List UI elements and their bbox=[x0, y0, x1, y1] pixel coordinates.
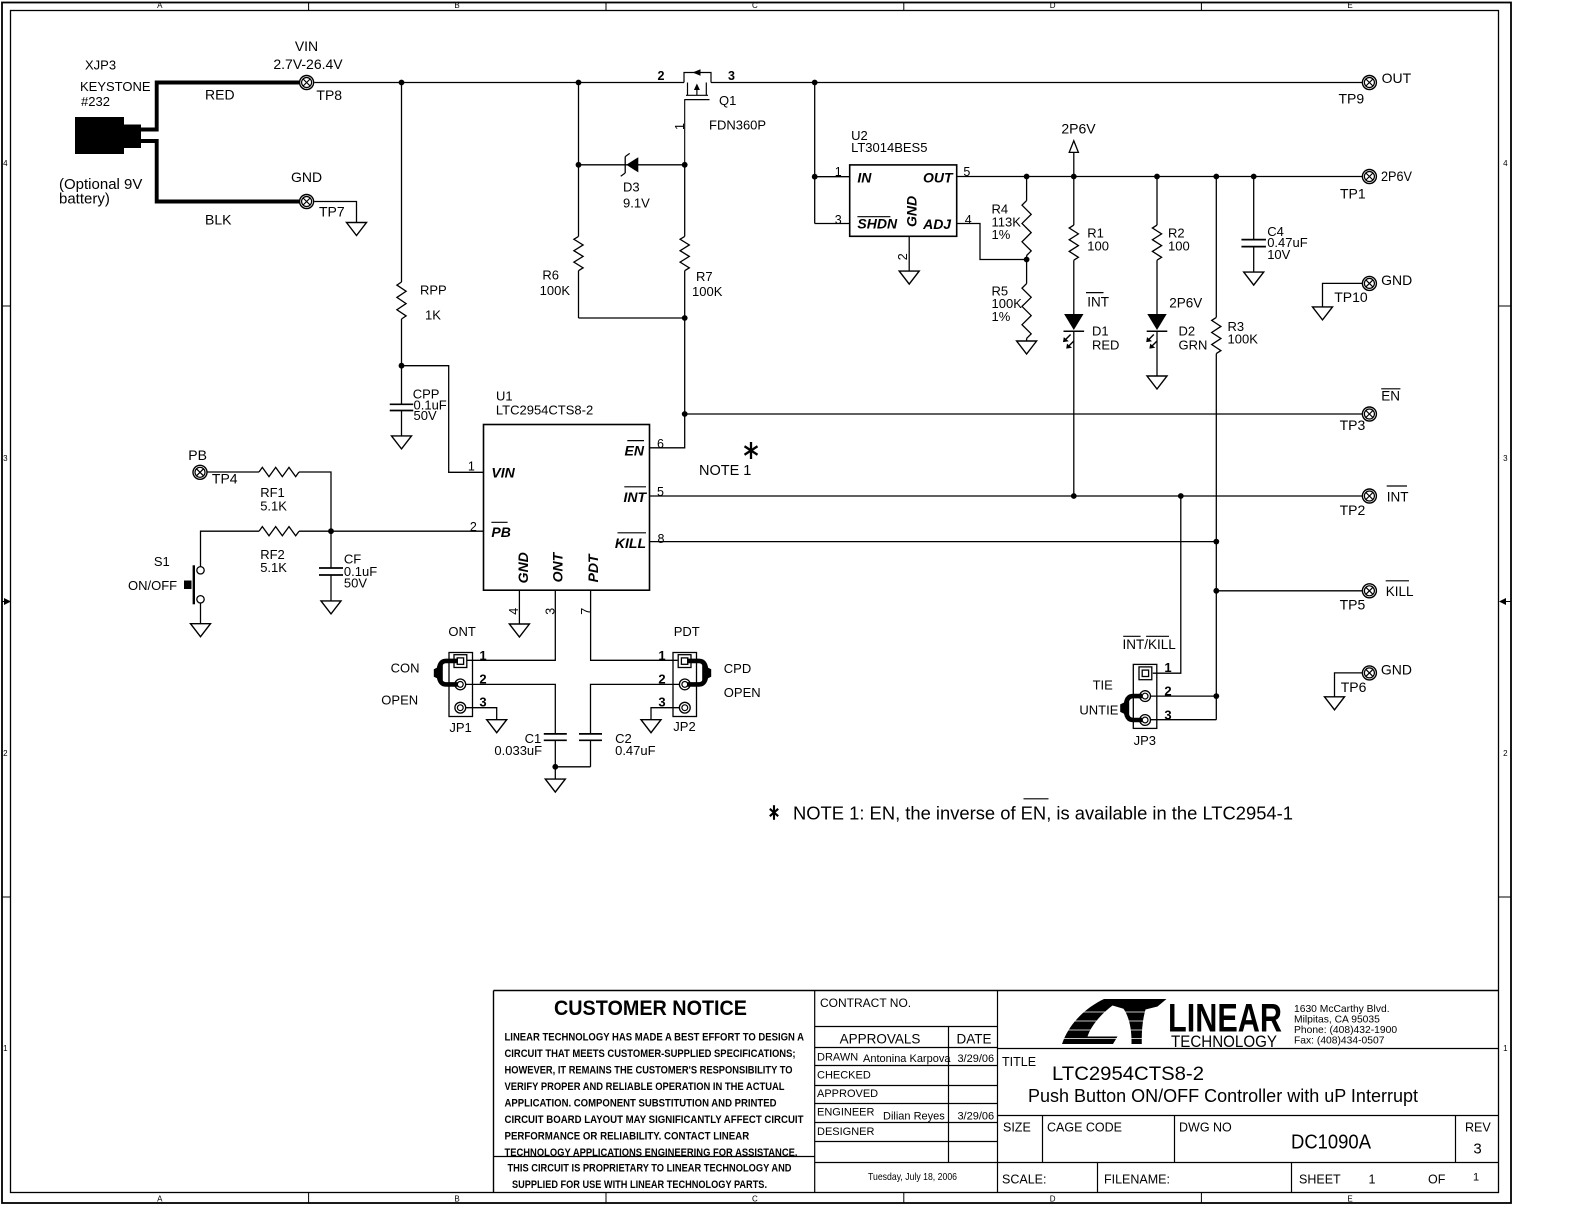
svg-text:RED: RED bbox=[205, 87, 235, 103]
svg-text:VIN: VIN bbox=[295, 38, 318, 54]
capacitor C2 0.47uF bbox=[579, 731, 656, 758]
svg-text:C: C bbox=[752, 1194, 758, 1203]
svg-text:TIE: TIE bbox=[1093, 677, 1114, 692]
test point TP10 bbox=[1334, 276, 1376, 305]
wire JP2 pin2 to C2 bbox=[591, 684, 680, 734]
svg-text:TECHNOLOGY: TECHNOLOGY bbox=[1171, 1033, 1277, 1051]
junction U2 IN tap bbox=[812, 80, 818, 86]
svg-text:Antonina Karpova: Antonina Karpova bbox=[863, 1053, 951, 1065]
svg-text:Push Button ON/OFF Controller: Push Button ON/OFF Controller with uP In… bbox=[1028, 1085, 1418, 1106]
resistor R5 100K 1% bbox=[992, 284, 1032, 339]
ground symbol at U1 GND bbox=[509, 624, 529, 637]
wire D1 to INT net bbox=[1073, 331, 1075, 496]
wire CF to ground bbox=[330, 575, 332, 601]
svg-text:KILL: KILL bbox=[615, 535, 646, 551]
net label OUT bbox=[1382, 70, 1412, 86]
wire R7 to bottom node bbox=[684, 271, 686, 318]
svg-text:APPROVALS: APPROVALS bbox=[840, 1032, 921, 1047]
wire U1 ONT to JP1 bbox=[467, 590, 555, 660]
logo LINEAR TECHNOLOGY bbox=[1052, 997, 1282, 1051]
svg-text:5.1K: 5.1K bbox=[260, 499, 287, 514]
wire C1 to ground node bbox=[554, 740, 556, 767]
junction PB/CF node bbox=[328, 528, 334, 534]
wire TP5 stub bbox=[1216, 590, 1362, 592]
svg-text:TP8: TP8 bbox=[316, 87, 342, 103]
svg-text:SCALE:: SCALE: bbox=[1002, 1173, 1046, 1187]
junction R3 top bbox=[1213, 174, 1219, 180]
wire JP1 pin2 to C1 bbox=[466, 684, 556, 734]
wire U2 IN stub bbox=[815, 176, 850, 178]
wire U2 OUT / 2P6V net bbox=[957, 176, 1363, 178]
junction D3 right / Q1 gate bbox=[682, 162, 688, 168]
svg-text:B: B bbox=[454, 1, 459, 10]
label NOTE 1 bbox=[699, 463, 751, 479]
svg-text:1: 1 bbox=[479, 648, 486, 663]
svg-text:100: 100 bbox=[1087, 238, 1109, 253]
svg-text:GND: GND bbox=[903, 196, 919, 227]
resistor R1 100 bbox=[1069, 225, 1109, 260]
svg-text:BLK: BLK bbox=[205, 212, 232, 228]
svg-text:DWG NO: DWG NO bbox=[1179, 1121, 1232, 1135]
test point TP3 bbox=[1340, 407, 1377, 433]
svg-text:RED: RED bbox=[1092, 338, 1119, 353]
svg-text:Tuesday, July 18, 2006: Tuesday, July 18, 2006 bbox=[868, 1171, 957, 1183]
test point TP6 bbox=[1341, 666, 1377, 695]
svg-text:Dilian Reyes: Dilian Reyes bbox=[883, 1111, 945, 1123]
power symbol 2P6V arrow bbox=[1061, 121, 1096, 177]
svg-text:ON/OFF: ON/OFF bbox=[128, 578, 177, 593]
svg-text:TP5: TP5 bbox=[1340, 596, 1366, 612]
svg-text:DATE: DATE bbox=[956, 1032, 991, 1047]
svg-text:APPROVED: APPROVED bbox=[817, 1088, 878, 1100]
svg-text:2: 2 bbox=[3, 749, 8, 758]
resistor R2 100 bbox=[1152, 225, 1189, 260]
svg-text:D3: D3 bbox=[623, 180, 640, 195]
svg-text:VERIFY PROPER AND RELIABLE OPE: VERIFY PROPER AND RELIABLE OPERATION IN … bbox=[505, 1081, 785, 1093]
resistor R6 100K bbox=[540, 236, 583, 298]
svg-text:1: 1 bbox=[1503, 1044, 1508, 1053]
test point TP4 bbox=[193, 465, 238, 486]
svg-text:TECHNOLOGY APPLICATIONS ENGINE: TECHNOLOGY APPLICATIONS ENGINEERING FOR … bbox=[505, 1147, 798, 1159]
junction KILL/R3 bbox=[1213, 539, 1219, 545]
svg-text:ONT: ONT bbox=[448, 624, 476, 639]
jumper shunt JP1 CON bbox=[434, 661, 458, 685]
resistor RF2 5.1K bbox=[259, 527, 299, 576]
wire JP3 pin2 stub bbox=[1151, 695, 1217, 697]
svg-text:S1: S1 bbox=[154, 554, 170, 569]
svg-text:#232: #232 bbox=[81, 94, 110, 109]
svg-text:1: 1 bbox=[835, 165, 842, 179]
svg-text:SIZE: SIZE bbox=[1003, 1121, 1031, 1135]
wire OUT to U2 IN bbox=[814, 83, 816, 224]
ground symbol at U2 bbox=[899, 271, 919, 284]
wire U2 ADJ to divider bbox=[957, 224, 1027, 260]
capacitor C1 0.033uF bbox=[494, 731, 566, 758]
wire RF1 to PB node bbox=[299, 472, 331, 531]
wire KILL pin net bbox=[650, 541, 1217, 543]
svg-text:PDT: PDT bbox=[674, 624, 700, 639]
svg-text:0.033uF: 0.033uF bbox=[494, 743, 542, 758]
svg-text:TITLE: TITLE bbox=[1002, 1055, 1036, 1069]
svg-text:E: E bbox=[1347, 1194, 1352, 1203]
wire R5 to ground bbox=[1026, 338, 1028, 341]
test point TP5 bbox=[1340, 584, 1377, 613]
title block customer notice bbox=[505, 996, 805, 1191]
svg-text:1: 1 bbox=[673, 123, 687, 130]
svg-text:EN: EN bbox=[1381, 389, 1400, 404]
junction D3 left bbox=[576, 162, 582, 168]
svg-text:INT/KILL: INT/KILL bbox=[1123, 637, 1177, 652]
svg-text:DESIGNER: DESIGNER bbox=[817, 1126, 875, 1138]
wire CPP stem bbox=[401, 366, 403, 405]
title block approvals table bbox=[817, 996, 994, 1183]
junction RPP tap bbox=[399, 80, 405, 86]
svg-text:OF: OF bbox=[1428, 1173, 1446, 1187]
label INT/KILL bbox=[1123, 636, 1177, 652]
test point TP2 bbox=[1340, 489, 1377, 518]
svg-text:A: A bbox=[157, 1, 163, 10]
wire BLK battery lead bbox=[141, 139, 300, 228]
net label EN at TP3 bbox=[1381, 389, 1400, 404]
svg-text:1: 1 bbox=[658, 648, 665, 663]
svg-text:NOTE 1: EN, the inverse of EN: NOTE 1: EN, the inverse of EN, is availa… bbox=[793, 804, 1293, 824]
svg-text:2P6V: 2P6V bbox=[1381, 168, 1413, 184]
wire D3 to R6 bbox=[578, 165, 580, 237]
svg-text:A: A bbox=[157, 1194, 163, 1203]
svg-text:R7: R7 bbox=[696, 269, 713, 284]
wire R6-R7 bottom bbox=[579, 317, 686, 319]
junction CPP node bbox=[399, 363, 405, 369]
net label 2P6V at TP1 bbox=[1381, 168, 1413, 184]
wire TP7 to ground bbox=[314, 202, 356, 223]
svg-text:100K: 100K bbox=[692, 284, 723, 299]
wire U2 GND stem bbox=[908, 236, 910, 271]
svg-text:TP6: TP6 bbox=[1341, 679, 1367, 695]
svg-text:1: 1 bbox=[468, 460, 475, 474]
junction INT/JP3 bbox=[1178, 493, 1184, 499]
wire TP6 to ground bbox=[1335, 673, 1363, 697]
wire CF stem bbox=[330, 531, 332, 568]
label ONT JP1 bbox=[448, 624, 476, 639]
svg-text:50V: 50V bbox=[414, 408, 437, 423]
wire D3 node horizontal bbox=[579, 164, 686, 166]
junction EN node bbox=[682, 411, 688, 417]
net label VIN 2.7V-26.4V bbox=[273, 38, 343, 72]
svg-text:ENGINEER: ENGINEER bbox=[817, 1107, 875, 1119]
net label PB bbox=[188, 447, 207, 463]
svg-text:D: D bbox=[1050, 1, 1056, 10]
wire TP4 to RF1 bbox=[207, 471, 259, 473]
wire C4 top lead bbox=[1253, 177, 1255, 240]
label optional 9V battery bbox=[59, 176, 142, 208]
svg-text:3: 3 bbox=[835, 213, 842, 227]
junction KILL/JP3 pin2 bbox=[1213, 693, 1219, 699]
net label GND at TP10 bbox=[1381, 272, 1412, 288]
svg-text:FDN360P: FDN360P bbox=[709, 118, 766, 133]
wire R2 top lead bbox=[1156, 177, 1158, 226]
net label 2P6V at D2 bbox=[1169, 296, 1202, 311]
svg-text:5.1K: 5.1K bbox=[260, 560, 287, 575]
junction C1/C2 ground node bbox=[552, 764, 558, 770]
svg-text:2P6V: 2P6V bbox=[1061, 121, 1096, 137]
svg-text:JP1: JP1 bbox=[449, 720, 471, 735]
net label GND at TP6 bbox=[1381, 662, 1412, 678]
svg-text:3: 3 bbox=[1473, 1141, 1481, 1158]
svg-text:OUT: OUT bbox=[923, 170, 954, 186]
junction U2 IN bbox=[812, 174, 818, 180]
wire JP1 pin3 to ground bbox=[466, 708, 497, 720]
svg-text:GND: GND bbox=[1381, 272, 1412, 288]
svg-text:Fax: (408)434-0507: Fax: (408)434-0507 bbox=[1294, 1036, 1385, 1047]
svg-text:TP10: TP10 bbox=[1334, 289, 1368, 305]
wire U1 EN pin stub bbox=[650, 414, 685, 448]
svg-text:2: 2 bbox=[896, 253, 910, 260]
svg-text:CUSTOMER NOTICE: CUSTOMER NOTICE bbox=[554, 996, 747, 1020]
svg-text:JP3: JP3 bbox=[1134, 733, 1156, 748]
jumper JP3 INT/KILL bbox=[1133, 660, 1171, 748]
svg-text:REV: REV bbox=[1465, 1121, 1491, 1135]
svg-text:PDT: PDT bbox=[585, 553, 601, 582]
regulator U2 LT3014BES5 bbox=[835, 128, 972, 260]
jumper shunt JP2 CPD bbox=[687, 661, 711, 685]
wire VIN net top bbox=[314, 82, 684, 84]
svg-text:1: 1 bbox=[1369, 1173, 1376, 1187]
wire KILL riser bbox=[1215, 542, 1217, 720]
svg-text:CIRCUIT BOARD LAYOUT MAY SIGNI: CIRCUIT BOARD LAYOUT MAY SIGNIFICANTLY A… bbox=[505, 1114, 804, 1126]
svg-text:R6: R6 bbox=[542, 268, 559, 283]
svg-text:2: 2 bbox=[470, 520, 477, 534]
svg-text:D1: D1 bbox=[1092, 324, 1109, 339]
svg-text:2P6V: 2P6V bbox=[1169, 296, 1202, 311]
svg-text:CPD: CPD bbox=[724, 661, 751, 676]
svg-text:IN: IN bbox=[857, 170, 872, 186]
svg-text:1K: 1K bbox=[425, 308, 441, 323]
svg-text:1: 1 bbox=[3, 1044, 8, 1053]
capacitor CF 0.1uF 50V bbox=[319, 552, 377, 591]
svg-text:100: 100 bbox=[1168, 238, 1190, 253]
wire R4 top lead bbox=[1026, 177, 1028, 201]
svg-text:ONT: ONT bbox=[550, 551, 566, 582]
svg-text:VIN: VIN bbox=[491, 464, 515, 480]
wire R4 to R5 bbox=[1026, 256, 1028, 284]
svg-text:Milpitas, CA 95035: Milpitas, CA 95035 bbox=[1294, 1015, 1380, 1026]
svg-text:APPLICATION. COMPONENT SUBSTI: APPLICATION. COMPONENT SUBSTITUTION AND … bbox=[505, 1098, 777, 1110]
svg-text:5: 5 bbox=[657, 485, 664, 499]
svg-text:JP2: JP2 bbox=[673, 719, 695, 734]
svg-text:GND: GND bbox=[1381, 662, 1412, 678]
svg-text:1630 McCarthy Blvd.: 1630 McCarthy Blvd. bbox=[1294, 1004, 1390, 1015]
label UNTIE bbox=[1079, 702, 1118, 717]
wire JP3 pin3 stub bbox=[1151, 719, 1217, 721]
svg-text:INT: INT bbox=[1387, 489, 1409, 504]
svg-text:OUT: OUT bbox=[1382, 70, 1412, 86]
svg-text:PB: PB bbox=[491, 524, 510, 540]
svg-text:DRAWN: DRAWN bbox=[817, 1052, 858, 1064]
label OPEN JP1 bbox=[381, 693, 418, 708]
transistor Q1 FDN360P bbox=[658, 69, 767, 165]
junction D3/R6 tap bbox=[576, 80, 582, 86]
wire VIN to D3 node bbox=[578, 83, 580, 165]
LED D2 GRN bbox=[1146, 314, 1207, 353]
wire EN net bbox=[685, 413, 1363, 415]
svg-text:3: 3 bbox=[3, 454, 8, 463]
diode D3 9.1V zener bbox=[621, 153, 650, 210]
svg-text:OPEN: OPEN bbox=[724, 685, 761, 700]
wire C1-C2 bottom bbox=[555, 766, 590, 768]
note marker star bbox=[745, 442, 758, 459]
svg-text:HOWEVER, IT REMAINS THE CUSTOM: HOWEVER, IT REMAINS THE CUSTOMER'S RESPO… bbox=[505, 1064, 793, 1076]
svg-text:CON: CON bbox=[391, 661, 420, 676]
svg-text:100K: 100K bbox=[1228, 332, 1259, 347]
svg-text:9.1V: 9.1V bbox=[623, 196, 650, 211]
wire C4 to ground bbox=[1253, 247, 1255, 273]
wire CPP to ground bbox=[401, 411, 403, 436]
svg-text:ADJ: ADJ bbox=[922, 216, 952, 232]
svg-text:0.47uF: 0.47uF bbox=[615, 743, 656, 758]
svg-text:LINEAR TECHNOLOGY HAS MADE A B: LINEAR TECHNOLOGY HAS MADE A BEST EFFORT… bbox=[505, 1031, 805, 1043]
ground symbol at TP7 bbox=[347, 223, 367, 236]
wire R1 to D1 bbox=[1073, 260, 1075, 314]
ground symbol at D2 bbox=[1147, 376, 1167, 389]
svg-text:INT: INT bbox=[623, 489, 647, 505]
label OPEN JP2 bbox=[724, 685, 761, 700]
svg-text:EN: EN bbox=[625, 443, 645, 459]
svg-text:INT: INT bbox=[1087, 294, 1109, 309]
svg-text:1%: 1% bbox=[992, 227, 1011, 242]
svg-text:10V: 10V bbox=[1267, 247, 1290, 262]
junction ADJ node bbox=[1024, 257, 1030, 263]
svg-text:100K: 100K bbox=[540, 283, 571, 298]
wire top to RPP bbox=[401, 83, 403, 283]
svg-text:E: E bbox=[1347, 1, 1352, 10]
wire RED battery lead bbox=[141, 83, 299, 132]
svg-text:CONTRACT NO.: CONTRACT NO. bbox=[820, 996, 911, 1010]
wire TP10 to ground bbox=[1323, 283, 1363, 307]
svg-text:U1: U1 bbox=[496, 388, 513, 403]
jumper JP2 PDT bbox=[658, 648, 696, 734]
ground symbol at S1 bbox=[191, 624, 211, 637]
svg-text:2: 2 bbox=[658, 69, 665, 83]
op-amp U1 LTC2954CTS8-2 controller bbox=[468, 388, 665, 614]
junction TP5 tap bbox=[1213, 588, 1219, 594]
wire D2 to ground bbox=[1156, 331, 1158, 376]
svg-text:SUPPLIED FOR USE WITH LINEAR T: SUPPLIED FOR USE WITH LINEAR TECHNOLOGY … bbox=[512, 1179, 767, 1191]
svg-text:2: 2 bbox=[1503, 749, 1508, 758]
wire R3 top lead bbox=[1215, 177, 1217, 318]
LED D1 RED bbox=[1063, 314, 1119, 353]
wire U2 SHDN stub bbox=[815, 223, 850, 225]
svg-text:SHDN: SHDN bbox=[857, 215, 898, 231]
ground symbol at C1/C2 bbox=[545, 779, 565, 792]
net label INT at TP2 bbox=[1387, 486, 1409, 504]
test point TP1 bbox=[1340, 170, 1376, 202]
ground symbol at CF bbox=[321, 601, 341, 614]
svg-text:KILL: KILL bbox=[1386, 584, 1414, 599]
svg-text:XJP3: XJP3 bbox=[85, 58, 116, 73]
wire R1 top lead bbox=[1073, 177, 1075, 226]
title block frame lines bbox=[494, 991, 1499, 1193]
wire R3 bottom lead bbox=[1215, 354, 1217, 542]
svg-text:3/29/06: 3/29/06 bbox=[957, 1053, 994, 1065]
svg-text:TP2: TP2 bbox=[1340, 502, 1366, 518]
svg-text:LTC2954CTS8-2: LTC2954CTS8-2 bbox=[496, 403, 593, 418]
svg-text:CHECKED: CHECKED bbox=[817, 1070, 871, 1082]
wire ground node stem bbox=[554, 767, 556, 779]
wire EN riser bbox=[684, 318, 686, 414]
svg-text:TP9: TP9 bbox=[1339, 91, 1365, 107]
svg-text:D2: D2 bbox=[1179, 324, 1196, 339]
svg-text:CIRCUIT THAT MEETS CUSTOMER-SU: CIRCUIT THAT MEETS CUSTOMER-SUPPLIED SPE… bbox=[505, 1048, 796, 1060]
wire CPP node to U1 VIN bbox=[402, 366, 484, 473]
wire R6 to bottom bbox=[578, 271, 580, 318]
svg-text:CAGE CODE: CAGE CODE bbox=[1047, 1121, 1122, 1135]
svg-text:4: 4 bbox=[3, 159, 8, 168]
wire U1 GND stem bbox=[518, 590, 520, 624]
wire S1 to ground bbox=[200, 603, 202, 624]
battery connector XJP3 KEYSTONE #232 bbox=[75, 58, 151, 155]
svg-text:TP7: TP7 bbox=[319, 204, 345, 220]
label CPD bbox=[724, 661, 751, 676]
svg-text:TP4: TP4 bbox=[212, 471, 238, 487]
net label KILL at TP5 bbox=[1386, 581, 1414, 599]
junction R4 top bbox=[1024, 174, 1030, 180]
wire OUT net top bbox=[711, 82, 1362, 84]
net label GND at TP7 bbox=[291, 169, 322, 185]
wire Q1 gate to R7 bbox=[684, 165, 686, 237]
resistor R7 100K bbox=[680, 236, 723, 299]
junction R7 bottom bbox=[682, 315, 688, 321]
wire JP2 pin3 to ground bbox=[651, 708, 679, 720]
wire R2 to D2 bbox=[1156, 260, 1158, 314]
junction 2P6V arrow bbox=[1071, 174, 1077, 180]
svg-text:6: 6 bbox=[657, 437, 664, 451]
svg-text:Phone: (408)432-1900: Phone: (408)432-1900 bbox=[1294, 1025, 1397, 1036]
junction C4 top bbox=[1251, 174, 1257, 180]
test point TP9 bbox=[1339, 76, 1377, 107]
svg-text:NOTE 1: NOTE 1 bbox=[699, 463, 751, 479]
svg-text:PB: PB bbox=[188, 447, 207, 463]
svg-text:LT3014BES5: LT3014BES5 bbox=[851, 140, 927, 155]
svg-text:SHEET: SHEET bbox=[1299, 1173, 1341, 1187]
svg-text:battery): battery) bbox=[59, 191, 110, 208]
test point TP8 bbox=[300, 76, 343, 104]
svg-text:8: 8 bbox=[658, 532, 665, 546]
label PDT JP2 bbox=[674, 624, 700, 639]
resistor R4 113K 1% bbox=[992, 201, 1032, 256]
test point TP7 bbox=[300, 195, 345, 220]
svg-text:UNTIE: UNTIE bbox=[1079, 702, 1118, 717]
svg-text:GND: GND bbox=[291, 169, 322, 185]
ground symbol at C4 bbox=[1244, 272, 1264, 285]
wire RF2 to U1 PB bbox=[299, 530, 484, 532]
wire INT net bbox=[650, 495, 1363, 497]
svg-text:TP3: TP3 bbox=[1340, 417, 1366, 433]
note star bottom bbox=[770, 805, 778, 820]
ground symbol at TP10 bbox=[1313, 307, 1333, 320]
ground symbol at JP1 bbox=[487, 720, 507, 733]
svg-text:2.7V-26.4V: 2.7V-26.4V bbox=[273, 56, 343, 72]
svg-text:DC1090A: DC1090A bbox=[1291, 1132, 1372, 1154]
svg-text:GRN: GRN bbox=[1179, 338, 1208, 353]
svg-text:D: D bbox=[1050, 1194, 1056, 1203]
wire U1 PDT to JP2 bbox=[591, 590, 678, 660]
svg-text:3: 3 bbox=[1503, 454, 1508, 463]
svg-text:3/29/06: 3/29/06 bbox=[957, 1111, 994, 1123]
svg-text:C: C bbox=[752, 1, 758, 10]
switch S1 ON/OFF bbox=[128, 554, 204, 604]
net label INT at D1 bbox=[1086, 293, 1109, 310]
ground symbol at CPP bbox=[392, 436, 412, 449]
